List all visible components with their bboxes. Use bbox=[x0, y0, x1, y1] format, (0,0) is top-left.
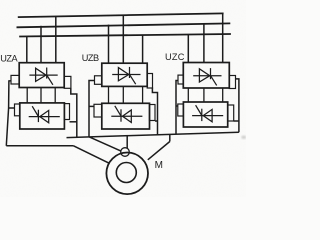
svg-text:UZA: UZA bbox=[0, 53, 18, 63]
svg-text:UZB: UZB bbox=[82, 53, 99, 63]
svg-text:M: M bbox=[155, 160, 163, 171]
svg-text:UZC: UZC bbox=[165, 52, 185, 62]
